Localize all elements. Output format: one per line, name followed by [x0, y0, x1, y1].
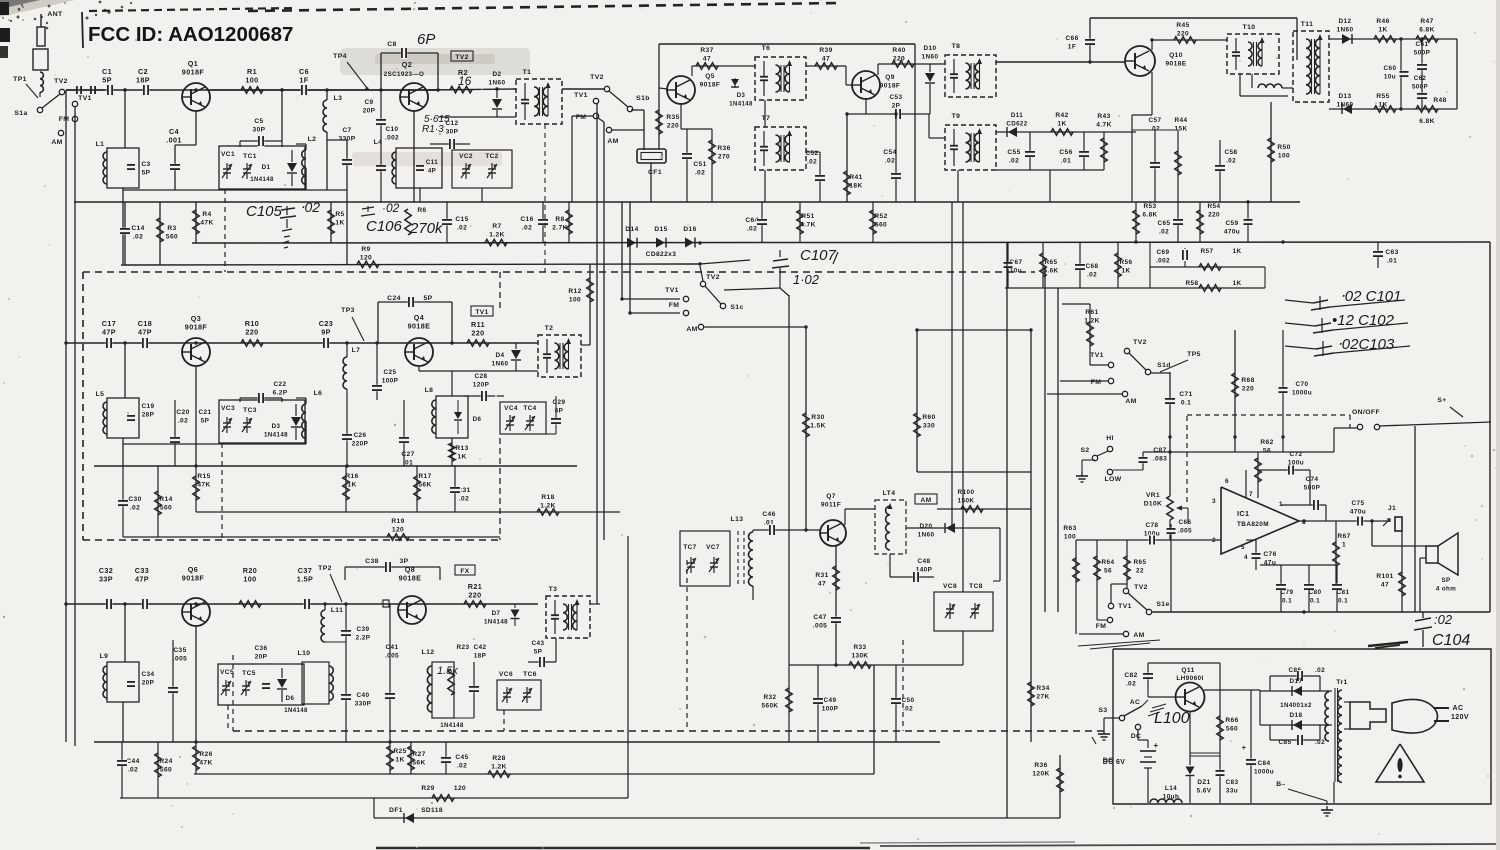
inductor L10 coil — [302, 662, 329, 704]
svg-text:2.2P: 2.2P — [356, 635, 371, 642]
svg-text:R6: R6 — [417, 207, 426, 214]
svg-text:Q10: Q10 — [1169, 52, 1183, 59]
svg-text:20P: 20P — [255, 654, 268, 661]
svg-text:AC: AC — [1130, 699, 1141, 706]
AM line from bank — [805, 327, 807, 530]
svg-text:TP5: TP5 — [1187, 351, 1201, 358]
svg-text:C14: C14 — [131, 225, 144, 232]
svg-text:47P: 47P — [138, 328, 152, 337]
svg-text:TV2: TV2 — [590, 74, 604, 81]
svg-text:.01: .01 — [1387, 258, 1397, 265]
svg-text:1: 1 — [1342, 542, 1346, 549]
svg-text:AM: AM — [686, 326, 697, 333]
wire T1 out — [562, 88, 604, 90]
svg-text:C83: C83 — [1226, 779, 1239, 786]
svg-text:.02: .02 — [695, 170, 705, 177]
svg-text:6.8K: 6.8K — [1419, 118, 1435, 125]
svg-text:9018E: 9018E — [399, 574, 422, 583]
svg-text:TV2: TV2 — [54, 78, 68, 85]
svg-text:6.2P: 6.2P — [273, 390, 288, 397]
svg-text:6.8K: 6.8K — [1142, 212, 1157, 219]
svg-text:TV2: TV2 — [1133, 339, 1147, 346]
wire Q10 emitter — [1151, 72, 1153, 115]
svg-text:C74: C74 — [1306, 476, 1319, 483]
svg-text:9018F: 9018F — [182, 574, 205, 583]
svg-text:270k: 270k — [409, 220, 444, 237]
svg-text:2SC1923—O: 2SC1923—O — [384, 71, 424, 78]
svg-text:0.1: 0.1 — [1181, 400, 1191, 407]
svg-text:TC7: TC7 — [683, 544, 696, 551]
dashed box bottom stage2 — [83, 539, 500, 541]
svg-text:L6: L6 — [314, 390, 323, 397]
svg-text:500P: 500P — [1304, 485, 1321, 492]
contact AM input — [58, 130, 63, 135]
svg-text:1K: 1K — [1378, 27, 1387, 34]
svg-text:L1: L1 — [96, 141, 105, 148]
svg-text:ON/OFF: ON/OFF — [1352, 409, 1380, 416]
svg-text:3: 3 — [1212, 498, 1216, 505]
stage2 box bottoms — [123, 443, 306, 445]
svg-text:D3: D3 — [272, 423, 281, 430]
svg-text:R56: R56 — [1120, 259, 1133, 266]
resistor R3 — [159, 202, 161, 265]
svg-text:C82: C82 — [1124, 672, 1137, 679]
svg-text:C45: C45 — [455, 754, 468, 761]
photocopy smear under header — [340, 48, 530, 75]
wire Q9 emitter down — [846, 114, 848, 202]
output node — [1302, 519, 1305, 522]
IF wire T8 to Q10 — [996, 61, 1125, 63]
svg-text:R33: R33 — [854, 644, 867, 651]
svg-text:C58: C58 — [1225, 149, 1238, 156]
switch bank1 wires — [596, 104, 598, 604]
svg-text:T10: T10 — [1243, 24, 1256, 31]
IC1 TBA820M amplifier — [1221, 487, 1299, 554]
dashed vertical mid2 — [902, 640, 904, 731]
svg-text:330: 330 — [923, 423, 935, 430]
svg-text:C62: C62 — [1414, 75, 1427, 82]
svg-text:1N4001x2: 1N4001x2 — [1280, 702, 1312, 709]
svg-text:.02: .02 — [457, 763, 467, 770]
svg-text:C52: C52 — [806, 150, 819, 157]
svg-text:T9: T9 — [952, 113, 961, 120]
svg-text:VC8: VC8 — [943, 583, 957, 590]
svg-text:R48: R48 — [1433, 97, 1446, 104]
svg-text:C55: C55 — [1007, 149, 1020, 156]
node L1 top — [123, 88, 126, 91]
svg-text:DC 6V: DC 6V — [1103, 759, 1126, 766]
svg-text:47P: 47P — [135, 575, 149, 584]
svg-text:56: 56 — [1263, 448, 1271, 455]
bottom page edge line — [376, 847, 870, 849]
svg-text:100: 100 — [569, 297, 581, 304]
ground S2 — [1081, 472, 1083, 476]
svg-text:R65: R65 — [1134, 559, 1147, 566]
top rail over IF — [659, 43, 915, 45]
svg-text:560: 560 — [166, 234, 178, 241]
svg-text:1N60: 1N60 — [1337, 27, 1354, 34]
svg-text:30P: 30P — [446, 129, 459, 136]
contact FM c — [683, 310, 688, 315]
svg-text:C57: C57 — [1149, 117, 1162, 124]
svg-text:FCC ID: AAO1200687: FCC ID: AAO1200687 — [88, 23, 293, 46]
svg-text:C87: C87 — [1153, 447, 1166, 454]
svg-text:R29: R29 — [421, 785, 434, 792]
svg-text:DZ1: DZ1 — [1197, 779, 1210, 786]
svg-text:C21: C21 — [199, 409, 212, 416]
svg-text:SD118: SD118 — [421, 807, 443, 814]
svg-text:C51: C51 — [693, 161, 706, 168]
svg-text:R28: R28 — [492, 755, 505, 762]
AM AGC vertical — [788, 295, 790, 665]
B+ vertical to audio bus — [1414, 426, 1416, 612]
svg-text:R34: R34 — [1036, 685, 1049, 692]
capacitors C79 C80 C81 — [1259, 570, 1261, 612]
svg-text:C70: C70 — [1296, 381, 1309, 388]
switch S1b — [609, 91, 628, 107]
svg-text:1K: 1K — [1233, 248, 1242, 255]
svg-text:C75: C75 — [1352, 500, 1365, 507]
svg-text:Tr1: Tr1 — [1336, 679, 1347, 686]
main signal line stage1 — [66, 89, 437, 91]
svg-text:TP2: TP2 — [318, 565, 332, 572]
wire main to VC1 box — [281, 90, 283, 141]
switch S1c arm — [705, 286, 721, 304]
wire R4-R5 bottom y243 — [192, 242, 1490, 243]
svg-text:R100: R100 — [958, 489, 975, 496]
svg-text:20P: 20P — [142, 680, 155, 687]
FCC header left bar — [82, 12, 83, 48]
svg-text:C19: C19 — [142, 403, 155, 410]
svg-text:AM: AM — [607, 138, 618, 145]
contact TV2 b — [604, 86, 609, 91]
wire Q2 emitter — [413, 111, 415, 202]
vertical AM IF feed — [951, 202, 953, 528]
svg-text:1K: 1K — [1233, 280, 1242, 287]
svg-text:•12 C102: •12 C102 — [1332, 312, 1395, 329]
svg-text:.001: .001 — [166, 136, 182, 145]
input series caps — [66, 89, 104, 91]
svg-text:FM: FM — [1096, 623, 1107, 630]
stage1 osc bottoms — [418, 188, 420, 190]
svg-text:C72: C72 — [1290, 451, 1303, 458]
svg-text:.002: .002 — [1156, 258, 1170, 265]
svg-text:R67: R67 — [1337, 533, 1350, 540]
svg-text:CF1: CF1 — [648, 169, 662, 176]
svg-text:VC4: VC4 — [504, 405, 518, 412]
svg-text:D4: D4 — [496, 352, 505, 359]
svg-text:T1: T1 — [523, 69, 532, 76]
svg-text:L2: L2 — [308, 136, 317, 143]
svg-text:ANT: ANT — [47, 11, 63, 18]
svg-text:100: 100 — [1278, 153, 1290, 160]
svg-text:R63: R63 — [1063, 525, 1076, 532]
right vertical after detector — [1456, 39, 1458, 109]
svg-text:3P: 3P — [399, 558, 408, 565]
svg-text:1K: 1K — [1122, 268, 1131, 275]
svg-text:100: 100 — [243, 575, 256, 584]
svg-text:R57: R57 — [1201, 248, 1214, 255]
svg-text:R61: R61 — [1085, 309, 1098, 316]
contact AM b — [606, 127, 611, 132]
svg-text:C59: C59 — [1226, 220, 1239, 227]
svg-text:C41: C41 — [386, 644, 399, 651]
svg-text:5P: 5P — [423, 295, 432, 302]
svg-text:Q5: Q5 — [705, 73, 715, 80]
svg-text:120: 120 — [454, 785, 466, 792]
svg-text:5P: 5P — [534, 649, 543, 656]
svg-text:R8: R8 — [555, 216, 564, 223]
svg-text:D14: D14 — [625, 226, 638, 233]
svg-text:100P: 100P — [382, 378, 399, 385]
svg-text:560: 560 — [1226, 726, 1238, 733]
svg-text:D6: D6 — [473, 416, 482, 423]
ground bus stage1 y202 — [74, 201, 1300, 203]
svg-text:R60: R60 — [922, 414, 935, 421]
svg-text:500P: 500P — [1412, 84, 1428, 91]
bus above IC — [1143, 451, 1334, 453]
svg-text:5.6K: 5.6K — [1043, 268, 1058, 275]
svg-text:L5: L5 — [96, 391, 105, 398]
svg-text:28P: 28P — [142, 412, 155, 419]
svg-text:R18: R18 — [541, 494, 554, 501]
resistor R49 wire — [1438, 73, 1457, 75]
vertical mid lower FM — [627, 536, 629, 798]
main signal line stage2 — [66, 342, 538, 344]
svg-text:120P: 120P — [473, 382, 490, 389]
svg-text:AC: AC — [1453, 705, 1464, 712]
svg-text:1000u: 1000u — [1254, 769, 1274, 776]
svg-text:R47: R47 — [1420, 18, 1433, 25]
svg-text:C53: C53 — [890, 94, 903, 101]
contact TV1 input — [72, 101, 77, 106]
junction S1c — [698, 262, 701, 265]
wire Q7 collector — [844, 509, 846, 525]
svg-text:VC2: VC2 — [459, 153, 473, 160]
svg-text:⋅02: ⋅02 — [300, 199, 320, 215]
svg-text:LOW: LOW — [1104, 476, 1121, 483]
svg-text:TV1: TV1 — [665, 287, 679, 294]
svg-text:150K: 150K — [958, 498, 975, 505]
svg-text:Q2: Q2 — [402, 60, 412, 69]
svg-text:6.8K: 6.8K — [1419, 27, 1435, 34]
svg-text:L10: L10 — [298, 650, 311, 657]
wires S1d — [1062, 303, 1090, 305]
svg-text:C24: C24 — [387, 295, 401, 302]
svg-text:D3: D3 — [737, 93, 746, 99]
svg-text:0.1: 0.1 — [1282, 598, 1292, 605]
svg-text:5.6V: 5.6V — [1197, 788, 1212, 795]
svg-text:1·02: 1·02 — [793, 272, 820, 287]
svg-text:220P: 220P — [352, 441, 369, 448]
svg-text:C36: C36 — [255, 645, 268, 652]
dashed left stage3 — [232, 655, 234, 731]
svg-text:C27: C27 — [401, 451, 414, 458]
svg-text:18K: 18K — [849, 183, 862, 190]
svg-text:1N4148: 1N4148 — [284, 708, 308, 714]
speaker SP — [1426, 546, 1438, 563]
svg-text:L14: L14 — [1165, 785, 1177, 792]
svg-text:1.5P: 1.5P — [297, 575, 313, 584]
svg-text:TV2: TV2 — [1134, 584, 1148, 591]
svg-text:J1: J1 — [1388, 505, 1396, 512]
svg-text:Q7: Q7 — [826, 493, 836, 500]
svg-text:R25: R25 — [393, 748, 406, 755]
svg-text:C7: C7 — [342, 127, 351, 134]
svg-text:C107: C107 — [800, 247, 837, 264]
svg-text:560: 560 — [875, 222, 887, 229]
svg-text:R68: R68 — [1241, 377, 1254, 384]
svg-text:R23: R23 — [457, 644, 470, 651]
top right rail — [1090, 17, 1297, 19]
svg-text:C34: C34 — [142, 671, 155, 678]
svg-text:D20: D20 — [920, 523, 933, 530]
svg-text:C15: C15 — [455, 216, 468, 223]
svg-text:4.7K: 4.7K — [1096, 122, 1112, 129]
svg-text:S+: S+ — [1437, 397, 1446, 404]
svg-text:R19: R19 — [391, 518, 404, 525]
svg-text:L8: L8 — [425, 387, 434, 394]
vertical AM IF feed 2 — [962, 202, 964, 592]
svg-text:C44: C44 — [126, 758, 139, 765]
svg-text:FM: FM — [576, 114, 587, 121]
svg-text:5: 5 — [1241, 544, 1245, 551]
svg-text:TP3: TP3 — [341, 307, 355, 314]
svg-text:D6: D6 — [286, 695, 295, 702]
long vertical FM link — [629, 202, 631, 313]
svg-text:1F: 1F — [1068, 44, 1077, 51]
top dashed border line — [248, 3, 838, 11]
svg-text:R32: R32 — [764, 694, 777, 701]
svg-text:220: 220 — [667, 123, 679, 130]
dashed drop VC5 — [227, 705, 229, 731]
svg-text:47K: 47K — [199, 760, 212, 767]
svg-text:R44: R44 — [1175, 117, 1188, 124]
svg-text:FX: FX — [460, 568, 469, 575]
svg-text:CD822x3: CD822x3 — [646, 251, 677, 258]
svg-text:VC1: VC1 — [221, 151, 235, 158]
svg-text:15K: 15K — [1175, 126, 1188, 133]
svg-text:HI: HI — [1106, 435, 1114, 442]
svg-text:R13: R13 — [455, 445, 468, 452]
svg-text:18P: 18P — [136, 76, 150, 85]
svg-text:TC2: TC2 — [485, 153, 498, 160]
svg-text:C40: C40 — [357, 692, 370, 699]
svg-text:330P: 330P — [355, 701, 372, 708]
long vertical TV1 link — [621, 202, 623, 299]
svg-text:VR1: VR1 — [1146, 492, 1160, 499]
svg-text:.083: .083 — [1153, 456, 1167, 463]
svg-text:D13: D13 — [1339, 93, 1352, 100]
svg-text:T7: T7 — [762, 115, 771, 122]
svg-text:R7: R7 — [492, 223, 501, 230]
contact FM b — [593, 113, 598, 118]
svg-text:C46: C46 — [762, 511, 775, 518]
dashed vertical top mid — [544, 124, 546, 272]
scan corner smudge — [0, 0, 75, 17]
left rail wires — [65, 90, 67, 742]
svg-text:TV1: TV1 — [1090, 352, 1104, 359]
svg-text:D15: D15 — [654, 226, 667, 233]
dashed bottom stage3 — [233, 730, 1105, 732]
svg-text:C10: C10 — [386, 126, 399, 133]
svg-text:.02: .02 — [1087, 272, 1097, 279]
stage2 ground bus y466 — [94, 465, 577, 467]
ground S3 — [1103, 730, 1105, 734]
svg-text:1N4148: 1N4148 — [264, 432, 288, 439]
svg-text:C3: C3 — [141, 161, 150, 168]
DZ1-C83 tie — [1190, 752, 1220, 754]
svg-text:FM: FM — [1091, 379, 1102, 386]
svg-text:1K: 1K — [395, 757, 404, 764]
svg-text:220: 220 — [1242, 386, 1254, 393]
IC pin wires — [1227, 437, 1229, 490]
B+ exit top — [1490, 612, 1492, 649]
svg-text:D11: D11 — [1011, 112, 1023, 119]
svg-text:TBA820M: TBA820M — [1237, 521, 1269, 528]
svg-text:D1: D1 — [262, 164, 271, 171]
svg-text:.02: .02 — [1226, 158, 1236, 165]
varicap box VC4 TC4 — [500, 402, 546, 434]
dashed tuner box left — [82, 272, 84, 540]
svg-text:S1a: S1a — [14, 110, 27, 117]
varicap box VC3 TC3 D3 — [219, 400, 305, 443]
boxed label FX — [455, 565, 475, 575]
svg-text:C65: C65 — [1158, 220, 1171, 227]
svg-text:IC1: IC1 — [1237, 509, 1249, 518]
junction dots — [123, 88, 126, 91]
svg-text:D12: D12 — [1339, 18, 1352, 25]
FCC header dashed underline — [89, 8, 297, 11]
svg-text:C71: C71 — [1179, 391, 1192, 398]
svg-text:R40: R40 — [892, 47, 905, 54]
svg-text:1F: 1F — [299, 76, 308, 85]
main signal line stage3 — [66, 603, 538, 605]
svg-text:.02: .02 — [459, 496, 469, 503]
svg-text:DF1: DF1 — [389, 807, 403, 814]
svg-text:C29: C29 — [553, 399, 566, 406]
vertical to R34 — [1030, 330, 1032, 742]
svg-text:L9: L9 — [100, 653, 109, 660]
svg-text:47: 47 — [822, 56, 830, 63]
svg-text:C68: C68 — [1086, 263, 1099, 270]
svg-text:R42: R42 — [1055, 112, 1068, 119]
svg-text:Q9: Q9 — [885, 74, 895, 81]
svg-text:C106: C106 — [366, 218, 403, 235]
svg-text:1.5K: 1.5K — [810, 423, 826, 430]
svg-text:C22: C22 — [274, 381, 287, 388]
switch S1d cluster — [1124, 348, 1129, 353]
wire Q4 emitter return — [418, 366, 420, 371]
right edge rail — [1489, 242, 1491, 612]
svg-text:R3: R3 — [167, 225, 176, 232]
svg-text:R26: R26 — [199, 751, 212, 758]
varicap box VC2 TC2 — [452, 150, 512, 188]
svg-text:C28: C28 — [475, 373, 488, 380]
bottom audio bus y612 — [1148, 611, 1490, 613]
stage3 bus y742 — [94, 741, 940, 743]
svg-text:R62: R62 — [1260, 439, 1273, 446]
svg-text:AM: AM — [1125, 398, 1136, 405]
varicap box VC6 TC6 — [497, 680, 541, 710]
svg-text:TV1: TV1 — [1118, 603, 1132, 610]
svg-text:Q11: Q11 — [1181, 667, 1194, 674]
svg-text:VC5: VC5 — [220, 669, 234, 676]
svg-text:C66: C66 — [1065, 35, 1078, 42]
svg-text:AM: AM — [920, 497, 931, 504]
svg-text:R50: R50 — [1277, 144, 1290, 151]
svg-text:R53: R53 — [1144, 203, 1157, 210]
